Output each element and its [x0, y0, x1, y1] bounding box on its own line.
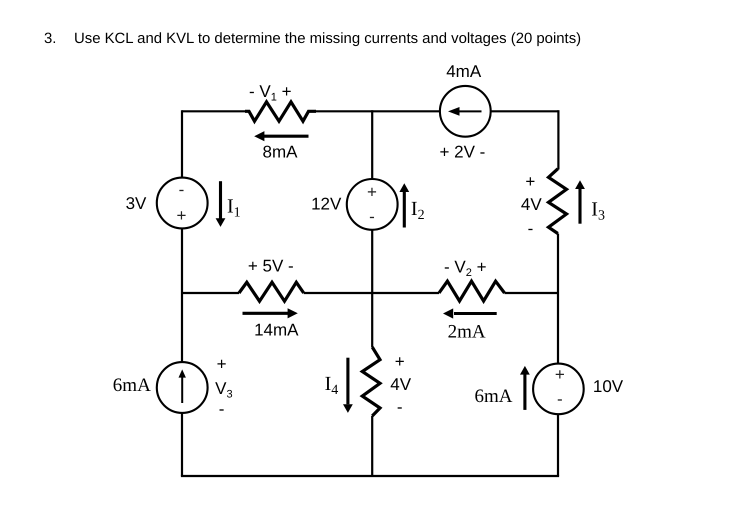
resistor R3 (right, 4V/I3)	[549, 169, 567, 234]
svg-text:-: -	[219, 400, 225, 419]
wire middle row center	[304, 292, 439, 294]
svg-text:14mA: 14mA	[254, 321, 299, 340]
wire middle vertical mid	[371, 230, 373, 347]
wire right rail mid	[557, 234, 559, 364]
voltage source 12V	[347, 179, 398, 230]
svg-text:+ 2V -: + 2V -	[439, 143, 485, 162]
current source 4mA (top)	[440, 86, 491, 137]
svg-text:+: +	[555, 365, 565, 384]
arrow inside 6mA source (up)	[181, 377, 183, 403]
wire top-center segment	[316, 110, 440, 112]
svg-text:V3: V3	[215, 379, 232, 401]
svg-text:+: +	[177, 206, 187, 225]
svg-text:-: -	[397, 398, 403, 417]
arrow I3 (up)	[578, 189, 581, 224]
svg-text:12V: 12V	[311, 195, 342, 214]
wire bottom rail	[181, 475, 559, 477]
wire right rail lower	[557, 414, 559, 476]
wire left rail lower	[181, 413, 183, 476]
wire top-right segment	[491, 110, 559, 112]
arrow 14mA (right)	[243, 312, 289, 315]
svg-text:-: -	[557, 389, 563, 408]
svg-text:4V: 4V	[390, 375, 411, 394]
svg-text:10V: 10V	[593, 377, 624, 396]
arrow I2 (up)	[403, 191, 406, 228]
svg-text:-: -	[179, 180, 185, 199]
svg-text:4mA: 4mA	[446, 62, 482, 81]
svg-text:I4: I4	[325, 373, 339, 398]
svg-text:4V: 4V	[521, 195, 542, 214]
svg-text:I3: I3	[591, 198, 605, 223]
svg-text:6mA: 6mA	[475, 386, 513, 407]
arrow 8mA (left)	[264, 135, 309, 138]
svg-text:3.: 3.	[44, 31, 56, 47]
svg-text:- V1 +: - V1 +	[249, 82, 292, 104]
wire left rail mid	[181, 229, 183, 363]
resistor R2 (+5V-/14mA)	[239, 282, 304, 301]
svg-text:-: -	[528, 219, 534, 238]
svg-text:Use KCL and KVL to determine t: Use KCL and KVL to determine the missing…	[74, 31, 581, 47]
svg-text:I2: I2	[411, 198, 425, 223]
voltage source 3V	[157, 178, 208, 229]
wire middle vertical lower	[371, 416, 373, 476]
current source 6mA (bottom-left)	[157, 362, 208, 413]
arrow inside 4mA source	[459, 110, 482, 112]
voltage source 10V	[533, 364, 584, 415]
svg-text:+: +	[367, 182, 377, 201]
svg-text:8mA: 8mA	[263, 143, 299, 162]
resistor R5 (middle, 4V/I4)	[362, 347, 380, 416]
svg-text:- V2 +: - V2 +	[444, 258, 487, 280]
wire middle vertical upper	[371, 110, 373, 179]
svg-text:6mA: 6mA	[113, 375, 151, 396]
resistor R4 (-V2+/2mA)	[439, 281, 505, 301]
svg-text:-: -	[369, 207, 375, 226]
svg-text:+: +	[395, 352, 405, 371]
arrow 6mA right (up)	[523, 374, 526, 410]
svg-text:+: +	[217, 355, 227, 374]
wire top-left segment	[182, 110, 245, 112]
arrow 2mA (left)	[454, 312, 497, 315]
svg-text:I1: I1	[227, 196, 241, 221]
svg-text:2mA: 2mA	[448, 322, 486, 343]
svg-text:3V: 3V	[126, 194, 147, 213]
svg-text:+: +	[525, 172, 535, 191]
arrow I1 (down)	[219, 181, 222, 219]
wire left rail upper	[181, 110, 183, 178]
svg-text:+ 5V -: + 5V -	[248, 257, 294, 276]
wire middle row right	[505, 292, 559, 294]
wire middle row left	[181, 292, 239, 294]
wire right rail upper	[557, 110, 559, 169]
arrow I4 (down)	[346, 358, 349, 405]
resistor R1 (top, V1/8mA)	[245, 102, 316, 121]
